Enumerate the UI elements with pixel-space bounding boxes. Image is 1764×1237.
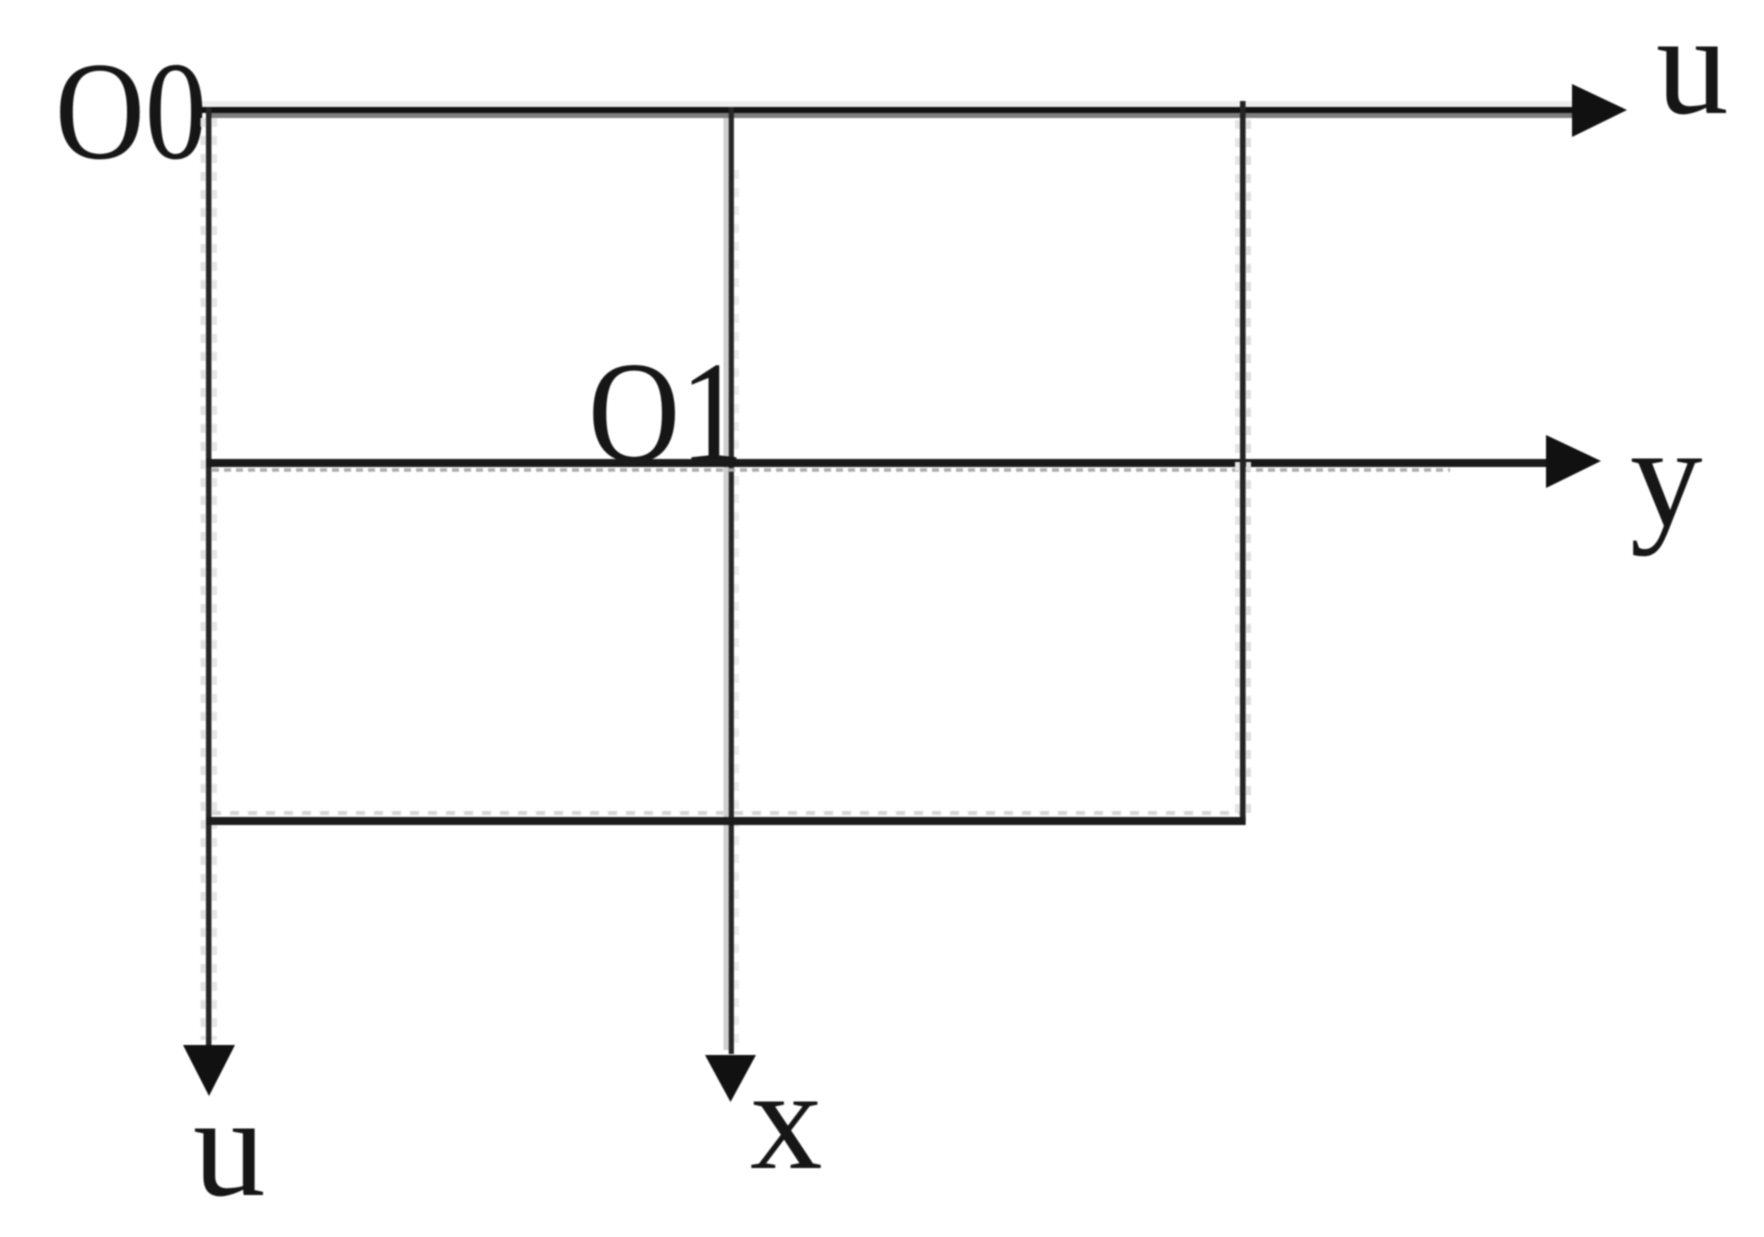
wire: gray dashes under y-axis line: [212, 468, 1450, 472]
wire: middle vertical x-axis line: [729, 107, 734, 1054]
arrowhead left u-axis (points down): [183, 1045, 235, 1096]
light band above u-axis line: [202, 101, 1578, 107]
wire: u-axis top horizontal line: [202, 107, 1580, 113]
wire: left gutter of left vertical: [201, 118, 206, 1040]
wire: bottom horizontal image-border line: [206, 817, 1246, 825]
arrowhead u-axis (points right): [1572, 84, 1627, 137]
svg-text:O0: O0: [55, 34, 207, 189]
wire: light gutters of right vertical: [1235, 120, 1240, 820]
wire: gray shadow under u-axis line: [206, 113, 1578, 118]
svg-text:u: u: [193, 1067, 266, 1227]
wire: y-axis horizontal line: [206, 459, 1553, 467]
wire: right gutter of left vertical: [212, 118, 217, 1040]
svg-text:y: y: [1630, 397, 1703, 557]
wire: gray gutter left of middle vertical: [724, 118, 729, 1050]
arrowhead x-axis (points down): [705, 1055, 756, 1102]
svg-text:u: u: [1656, 0, 1729, 145]
wire: right vertical image-border line: [1240, 101, 1246, 824]
wire: light dashes above bottom line: [212, 811, 1240, 815]
svg-text:x: x: [750, 1040, 823, 1200]
wire: light dashes right of middle vertical: [734, 170, 739, 1050]
arrowhead y-axis (points right): [1546, 435, 1601, 488]
wire: left vertical u-axis line: [206, 107, 212, 1048]
